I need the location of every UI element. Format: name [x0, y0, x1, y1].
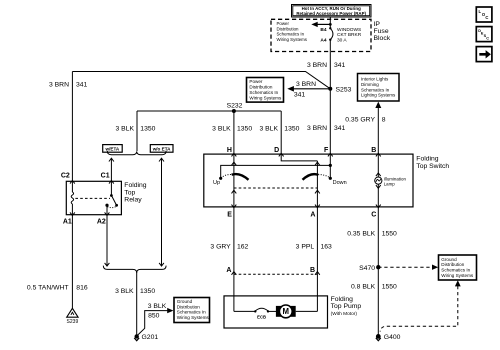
- wire: switch E to pump A, 3 GRY 162: [233, 207, 235, 312]
- svg-text:A4: A4: [320, 37, 326, 43]
- svg-text:3 BLK: 3 BLK: [212, 125, 231, 132]
- svg-text:30 A: 30 A: [337, 37, 347, 43]
- wire label 0.35 BLK 1550: [347, 230, 397, 237]
- svg-text:B: B: [310, 267, 315, 274]
- svg-text:3 BRN: 3 BRN: [307, 62, 327, 69]
- toolbar button DESC: [476, 27, 492, 42]
- svg-text:3 BRN: 3 BRN: [296, 81, 316, 88]
- svg-text:1350: 1350: [237, 125, 252, 132]
- right blade travel dotted: [318, 175, 330, 178]
- folding top switch box: [204, 154, 413, 207]
- pump pin A terminal arrow: [232, 272, 237, 275]
- svg-text:Schematics In: Schematics In: [361, 87, 390, 92]
- svg-text:Wiring Systems: Wiring Systems: [177, 315, 210, 320]
- svg-text:0.5 TAN/WHT: 0.5 TAN/WHT: [27, 284, 69, 291]
- svg-text:Schematics In: Schematics In: [249, 90, 278, 95]
- svg-text:S232: S232: [227, 103, 243, 110]
- svg-text:Lighting Systems: Lighting Systems: [361, 93, 396, 98]
- left blade travel dotted: [221, 175, 232, 178]
- reference box: Ground Distribution Schematics In Wiring Systems (right): [439, 255, 477, 280]
- wire label 3 BRN 341 (left): [49, 82, 88, 89]
- wire label 3 BRN 341 (pin F): [307, 125, 346, 132]
- reference box: Power Distribution Schematics In Wiring Systems: [247, 78, 284, 103]
- svg-text:G201: G201: [142, 334, 159, 341]
- wire: switch C to G400, BLK 1550: [377, 207, 379, 337]
- svg-text:341: 341: [76, 82, 88, 89]
- svg-text:B4: B4: [320, 27, 326, 33]
- svg-text:Schematics In: Schematics In: [441, 268, 470, 273]
- pin B terminal arrow: [376, 153, 381, 156]
- switch internal contact arrow (left pole): [232, 190, 237, 193]
- svg-text:C: C: [486, 36, 489, 40]
- wire: brace to G201, 3 BLK 1350: [136, 272, 138, 336]
- svg-text:Relay: Relay: [124, 197, 142, 204]
- ground G201: [135, 334, 139, 338]
- pump connector dashed face: [234, 273, 318, 275]
- option label w/o ETA: [150, 145, 173, 153]
- svg-text:Distribution: Distribution: [249, 84, 272, 89]
- terminal arrow at brace (w/o ETA branch): [159, 263, 164, 266]
- svg-text:Ground: Ground: [441, 257, 457, 262]
- svg-text:Fuse: Fuse: [374, 28, 389, 35]
- wire: switch internal bus to Up contact and F: [221, 165, 331, 177]
- svg-text:A: A: [226, 267, 231, 274]
- svg-text:341: 341: [334, 62, 346, 69]
- svg-text:S470: S470: [359, 265, 375, 272]
- svg-text:Wiring Systems: Wiring Systems: [277, 37, 308, 42]
- wire: switch A to pump B, 3 PPL 163: [316, 207, 318, 312]
- svg-text:Distribution: Distribution: [441, 262, 464, 267]
- wire: left vertical down to relay C2: [71, 72, 73, 182]
- wire: switch internal right pole leg: [316, 161, 318, 207]
- svg-text:A2: A2: [97, 218, 106, 225]
- svg-text:A: A: [310, 212, 315, 219]
- option label w/ETA: [103, 145, 123, 153]
- svg-text:Up: Up: [213, 180, 220, 186]
- switch internal contact arrow (right pole): [315, 190, 320, 193]
- svg-text:1350: 1350: [140, 125, 155, 132]
- ground arrow under G400: [376, 338, 381, 341]
- wire label 3 BLK 1350 (ground): [115, 288, 155, 295]
- relay switch contact from C1: [105, 181, 118, 214]
- svg-text:0.35 GRY: 0.35 GRY: [345, 117, 375, 124]
- junction of bus and F leg: [329, 164, 332, 167]
- pump internal wire motor to B: [296, 310, 318, 312]
- switch internal contact arrow (H bus): [232, 162, 237, 165]
- svg-text:341: 341: [334, 125, 346, 132]
- illumination lamp: [375, 177, 382, 184]
- svg-text:3 BLK: 3 BLK: [148, 303, 167, 310]
- splice S253: [328, 87, 332, 91]
- svg-text:Wiring Systems: Wiring Systems: [249, 95, 282, 100]
- pump motor M: [276, 305, 296, 318]
- left switch blade: [232, 174, 249, 180]
- wire: S253 down to switch pin F: [329, 89, 331, 154]
- splice S232: [232, 109, 236, 113]
- relay coil: [71, 181, 73, 214]
- svg-text:Interior Lights: Interior Lights: [361, 77, 389, 82]
- svg-text:0.8 BLK: 0.8 BLK: [351, 283, 376, 290]
- wire: switch internal F leg to Down contact: [329, 154, 331, 177]
- wire label 0.35 GRY 8: [345, 117, 386, 124]
- ground G400: [376, 334, 381, 339]
- pin C1 terminal arrow: [109, 180, 114, 183]
- svg-text:850: 850: [148, 313, 160, 320]
- pin A2 terminal arrow: [105, 212, 110, 215]
- svg-text:E: E: [227, 212, 232, 219]
- svg-text:Folding: Folding: [331, 296, 354, 303]
- svg-text:Block: Block: [374, 35, 391, 42]
- circuit breaker WINDOWS CKT BRKR 30 A: [329, 27, 333, 41]
- pump pin B terminal arrow: [315, 272, 320, 275]
- svg-text:816: 816: [76, 284, 88, 291]
- svg-text:Power: Power: [249, 79, 262, 84]
- ECB circuit breaker: [254, 308, 269, 312]
- svg-text:341: 341: [294, 91, 306, 98]
- pin H terminal arrow: [232, 153, 237, 156]
- folding top relay box: [66, 181, 121, 214]
- toolbar button next arrow: [476, 47, 492, 62]
- wire: switch internal H leg: [233, 154, 235, 207]
- svg-text:3 BRN: 3 BRN: [307, 125, 327, 132]
- wire: switch internal D leg: [281, 154, 317, 161]
- svg-text:1350: 1350: [284, 125, 299, 132]
- reference text: Power Distribution Schematics In Wiring Systems (inside fuse block): [277, 21, 308, 42]
- terminal arrow on w/ETA branch: [109, 158, 114, 161]
- wire: interior lights to switch pin B, 0.35 GRY 8: [377, 108, 379, 155]
- wire label 3 BRN 341 (upper): [307, 62, 346, 69]
- svg-text:WINDOWS: WINDOWS: [337, 27, 361, 33]
- wire: S232 to switch pin H, 3 BLK 1350: [233, 111, 235, 154]
- reference box: Interior Lights Dimming Schematics In Lighting Systems: [358, 74, 400, 102]
- svg-text:D: D: [274, 147, 279, 154]
- wire: S253 left to power distribution reference, 3 BRN 341: [287, 86, 330, 92]
- folding top pump box: [224, 296, 328, 328]
- svg-text:3 BLK: 3 BLK: [259, 125, 278, 132]
- svg-text:Retained Accessory Power (RAP): Retained Accessory Power (RAP): [296, 11, 366, 16]
- pin A terminal arrow: [315, 205, 320, 208]
- svg-text:A1: A1: [63, 218, 72, 225]
- pin A1 terminal arrow: [70, 212, 75, 215]
- wire label 3 BLK 1350 (pin D): [259, 125, 299, 132]
- wire: S232 to switch pin D, 3 BLK 1350: [280, 111, 282, 154]
- wire: breaker A4 down to S253, 3 BRN 341: [329, 40, 331, 89]
- svg-text:3 BLK: 3 BLK: [115, 288, 134, 295]
- wire: S232 down-left leg to ETA option brace, 3 BLK 1350: [136, 111, 138, 151]
- svg-text:C2: C2: [61, 173, 70, 180]
- pin C2 terminal arrow: [70, 180, 75, 183]
- svg-text:S253: S253: [336, 86, 352, 93]
- lamp terminal arrow upper: [376, 173, 381, 176]
- svg-text:163: 163: [321, 244, 333, 251]
- ground arrow under G201: [134, 338, 139, 341]
- svg-text:Dimming: Dimming: [361, 82, 379, 87]
- svg-text:M: M: [283, 307, 290, 316]
- pin F terminal arrow: [328, 153, 333, 156]
- terminal arrow on w/o ETA branch: [159, 158, 164, 161]
- svg-text:Down: Down: [333, 180, 347, 186]
- Down contact: [329, 177, 332, 180]
- svg-text:C1: C1: [101, 173, 110, 180]
- svg-text:Top Pump: Top Pump: [331, 303, 362, 310]
- wire: hot feed into breaker B4: [329, 17, 331, 28]
- svg-text:H: H: [227, 147, 232, 154]
- wire label 3 BLK 1350 (left): [115, 125, 155, 132]
- svg-text:CKT BRKR: CKT BRKR: [337, 32, 362, 38]
- fuse block hot feed label box "Hot In ACCY, RUN Or During Retained Accessory Power (RAP)": [292, 5, 372, 18]
- wire: G201 branch to ground distribution reference, 3 BLK 850: [137, 308, 174, 336]
- wire: S232 bus horizontal: [137, 110, 281, 112]
- svg-text:F: F: [324, 147, 329, 154]
- IP fuse block name label: [374, 21, 391, 42]
- svg-text:S239: S239: [67, 319, 79, 325]
- svg-text:Folding: Folding: [416, 155, 439, 162]
- svg-text:8: 8: [382, 117, 386, 124]
- ground merge brace: [103, 266, 166, 273]
- wire label 3 BLK 1350 (pin H): [212, 125, 252, 132]
- wire: switch internal lamp leg: [377, 154, 379, 207]
- IP fuse block dashed outline: [271, 19, 371, 51]
- reference box: Ground Distribution Schematics In Wiring Systems (left): [174, 298, 210, 323]
- switch poles mechanical dashed link: [234, 187, 318, 189]
- svg-text:Folding: Folding: [124, 182, 147, 189]
- svg-text:Lamp: Lamp: [384, 182, 396, 187]
- wire label 0.8 BLK 1550: [351, 283, 397, 290]
- wire: dashed ground return to G400: [380, 286, 458, 332]
- svg-text:B: B: [371, 147, 376, 154]
- svg-text:162: 162: [237, 244, 249, 251]
- wire: S470 dashed to ground distribution reference: [378, 265, 438, 270]
- wire label 3 GRY 162: [210, 244, 248, 251]
- relay armature dashed link: [75, 197, 110, 199]
- wire: w/o ETA branch down to ground brace: [161, 158, 163, 266]
- toolbar button LOC: [476, 7, 492, 22]
- svg-text:1550: 1550: [382, 283, 397, 290]
- option split brace: [107, 151, 166, 155]
- svg-text:Wiring Systems: Wiring Systems: [441, 273, 474, 278]
- terminal arrow at brace (A2 branch): [105, 263, 110, 266]
- svg-text:Top Switch: Top Switch: [416, 163, 449, 170]
- pump internal wire to ECB: [234, 310, 255, 312]
- svg-text:1350: 1350: [140, 288, 155, 295]
- switch internal contact arrow (D bus): [315, 162, 320, 165]
- wire: relay A2 down to ground brace: [106, 215, 108, 266]
- wire label 3 BLK 850: [148, 303, 167, 319]
- folding top pump name label: [331, 296, 362, 317]
- svg-text:ECB: ECB: [257, 315, 266, 320]
- arrow up into interior lights reference: [375, 102, 381, 108]
- svg-text:1550: 1550: [382, 230, 397, 237]
- svg-text:3 BLK: 3 BLK: [115, 125, 134, 132]
- right switch blade: [303, 174, 319, 180]
- svg-text:w/o ETA: w/o ETA: [152, 147, 171, 152]
- pump internal wire ECB to motor: [268, 310, 277, 312]
- lamp terminal arrow lower: [376, 185, 381, 188]
- wire label 0.5 TAN/WHT 816: [27, 284, 88, 291]
- wire: S253 diagonal up-left then across top, 3 BRN 341: [72, 72, 330, 89]
- svg-text:IP: IP: [374, 21, 381, 28]
- wire: relay A1 to splice pack S239, 0.5 TAN/WHT 816: [71, 215, 73, 309]
- svg-text:G400: G400: [384, 334, 401, 341]
- pin D terminal arrow: [279, 153, 284, 156]
- wire label 3 BRN 341 (to reference): [294, 81, 316, 98]
- illumination lamp label: [384, 176, 407, 186]
- svg-text:Top: Top: [124, 189, 135, 196]
- wire label 3 PPL 163: [296, 244, 332, 251]
- splice S470: [376, 265, 380, 269]
- svg-text:3 GRY: 3 GRY: [210, 244, 231, 251]
- pin C terminal arrow: [376, 205, 381, 208]
- folding top switch name label: [416, 155, 449, 169]
- circuit breaker value label: [337, 27, 362, 43]
- Up contact: [219, 177, 222, 180]
- folding top relay name label: [124, 182, 147, 204]
- arrow up into ground distribution reference: [455, 280, 461, 286]
- svg-text:C: C: [485, 15, 488, 20]
- svg-text:0.35 BLK: 0.35 BLK: [347, 230, 375, 237]
- pin E terminal arrow: [232, 205, 237, 208]
- wire: w/ETA branch down to relay C1: [110, 158, 112, 181]
- svg-text:3 PPL: 3 PPL: [296, 244, 315, 251]
- svg-text:C: C: [371, 212, 376, 219]
- svg-text:(With Motor): (With Motor): [331, 311, 358, 317]
- splice pack S239 symbol: [67, 308, 78, 317]
- arrow to power distribution reference (inside fuse block): [311, 22, 331, 27]
- svg-text:3 BRN: 3 BRN: [49, 82, 69, 89]
